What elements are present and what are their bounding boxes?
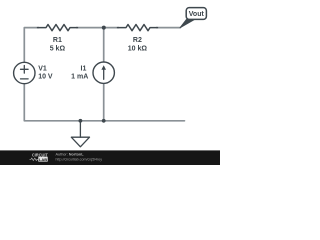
footer bar [0, 150, 220, 165]
voltage source V1 [14, 62, 35, 83]
ground [71, 121, 89, 147]
svg-text:10 V: 10 V [38, 74, 53, 81]
svg-text:http://circuitlab.com/c/q5l4re: http://circuitlab.com/c/q5l4rey [56, 158, 103, 162]
svg-text:R2: R2 [133, 37, 142, 44]
resistor R1 [38, 25, 78, 31]
svg-text:V1: V1 [38, 66, 47, 73]
wire top-left segment (corner to R1) [24, 28, 38, 63]
current source I1 [93, 62, 114, 83]
footer logo LAB box [38, 157, 47, 162]
resistor R2 [118, 25, 158, 31]
svg-text:Vout: Vout [189, 11, 205, 18]
svg-text:I1: I1 [81, 65, 87, 72]
wire between R1 and R2 [77, 27, 119, 29]
wire I1 bottom stem [103, 83, 105, 121]
svg-text:LAB: LAB [39, 157, 47, 162]
label R1 value [38, 37, 147, 81]
wire I1 top stem [103, 28, 105, 63]
wire V1 bottom stem + bottom rail [24, 84, 184, 121]
svg-text:5 kΩ: 5 kΩ [50, 45, 66, 52]
node junction top (I1 to rail) [102, 26, 106, 30]
svg-text:R1: R1 [53, 37, 62, 44]
wire R2 to Vout tail [157, 27, 181, 29]
svg-text:1 mA: 1 mA [71, 74, 88, 81]
node junction I1 bottom [102, 119, 106, 123]
svg-text:10 kΩ: 10 kΩ [128, 45, 148, 52]
footer logo zigzag [30, 158, 39, 160]
node Vout flag [180, 8, 206, 28]
node junction ground [79, 119, 83, 123]
svg-text:Author: NortonL: Author: NortonL [56, 153, 85, 157]
